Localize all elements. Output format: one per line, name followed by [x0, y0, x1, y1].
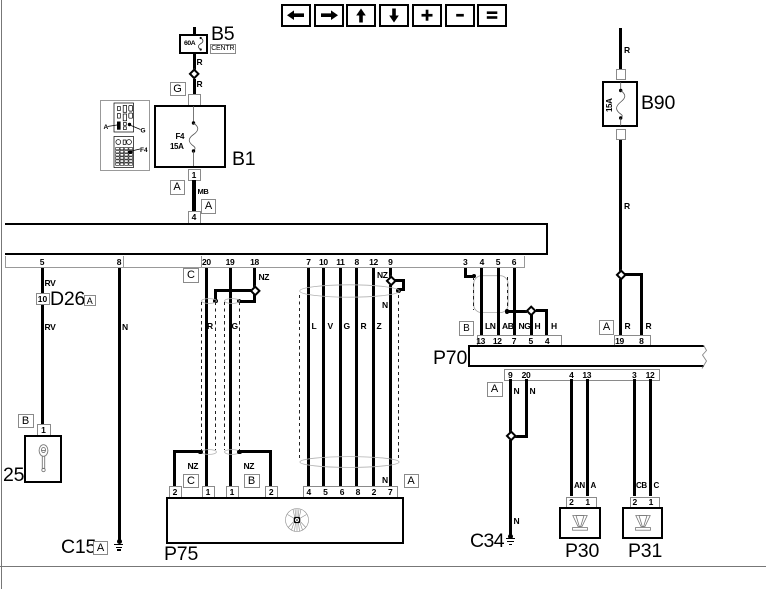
wire R (pin20 to P75 pin1)	[205, 268, 208, 487]
wire N from P70 pin 20	[525, 379, 528, 438]
connector B box of 25	[18, 414, 34, 428]
big shield oval (top)	[299, 284, 400, 298]
shield collar of wire 20 (top)	[201, 298, 217, 304]
shield dashed lines wire 19	[224, 302, 225, 450]
wire H to P70 pin 4	[536, 309, 547, 312]
connector diamond N join	[505, 430, 517, 442]
device 25 (key switch)	[24, 435, 62, 483]
P70 bottom pin strip	[504, 369, 661, 381]
B90 upper connector box	[616, 69, 627, 80]
ground C34	[508, 534, 513, 539]
P75 pin 5	[319, 488, 331, 497]
wire MB from B1 to bus	[192, 180, 196, 225]
label CENTR box	[210, 44, 236, 55]
wire RV from bus pin 5	[41, 268, 44, 425]
connector B box (P75)	[244, 474, 260, 489]
svg-text:F4: F4	[140, 147, 148, 154]
toolbar button right-arrow	[314, 4, 344, 27]
bus pin 20	[200, 258, 212, 267]
P75 pin 6	[336, 488, 348, 497]
P75 pin 1 box (B)	[226, 486, 239, 498]
device P31 (tweeter)	[622, 507, 664, 539]
wire NZ from pin18	[253, 268, 256, 287]
shield collar of wire 19 (bottom)	[224, 449, 240, 455]
big shield oval (bottom)	[299, 456, 400, 468]
wire NG (bus6 to P70 7)	[513, 268, 516, 336]
junction dot on big shield	[396, 288, 401, 293]
wire from NZ diamond to shield of wire 19	[253, 294, 256, 303]
junction dot on shield 20	[213, 299, 218, 304]
bus pin 5b	[492, 258, 504, 267]
bus pin 7	[303, 258, 315, 267]
label 25	[3, 466, 24, 486]
wire N to ground C34	[509, 440, 512, 536]
big shield dashed sides	[299, 295, 300, 460]
fuse B5	[179, 34, 208, 54]
wire A (P70 13 to P30 1)	[586, 379, 589, 497]
toolbar button left-arrow	[281, 4, 311, 27]
label C34	[470, 532, 504, 552]
connector diamond below B5	[188, 68, 200, 80]
label P30	[565, 542, 599, 562]
toolbar button down-arrow	[379, 4, 409, 27]
P75 pin 2	[368, 488, 380, 497]
bus pin 3	[459, 258, 471, 267]
bus pin 8	[113, 258, 125, 267]
wire CB (P70 3 to P31 2)	[633, 379, 636, 497]
P31 pin strip (2 1)	[630, 497, 661, 509]
shield dashed lines wire 20	[201, 302, 202, 450]
B90 15A label (rotated)	[606, 96, 614, 112]
wire shield to H diamond	[507, 310, 527, 313]
P75 pin 1 box (C)	[202, 486, 215, 498]
page left border line	[1, 0, 2, 589]
connector diamond NZ (shield junction)	[249, 285, 261, 297]
svg-text:A: A	[103, 124, 108, 131]
wire R below B90	[619, 140, 622, 272]
connector A box (P70 bottom)	[487, 382, 503, 397]
label B5	[211, 25, 234, 45]
wire R into B90	[619, 28, 622, 69]
wire N (pin9) below diamond	[389, 285, 392, 487]
bus pin 6	[508, 258, 520, 267]
connector diamond H	[525, 305, 537, 317]
fusebox B1	[154, 105, 226, 169]
pin 1 of 25	[37, 424, 51, 437]
connector diamond (R split)	[615, 269, 627, 281]
wire V (pin10)	[322, 268, 325, 487]
wire R to P70 pin 19	[619, 279, 622, 336]
toolbar button equals	[477, 4, 507, 27]
device P70 bus bar	[468, 345, 704, 367]
P70 pin strip left (13 12 7 5 4)	[477, 335, 562, 347]
drain from diamond to big shield	[394, 279, 404, 282]
B90 lower connector box	[616, 129, 627, 140]
bus pin 9	[384, 258, 396, 267]
wire R below B5	[193, 54, 196, 70]
wire N from bus pin 8	[118, 268, 121, 540]
label D26	[50, 290, 85, 310]
label B1	[232, 150, 255, 170]
toolbar button plus	[412, 4, 442, 27]
connector D26 pin 10 box	[36, 293, 50, 305]
P30 pin strip (2 1)	[566, 497, 597, 509]
wire C (P70 12 to P31 1)	[649, 379, 652, 497]
P75 siren symbol	[285, 508, 309, 532]
junction dot shield bottom right	[505, 309, 510, 314]
wire L (pin7)	[307, 268, 310, 487]
connector A box of D26	[84, 295, 96, 307]
wire RV lower	[45, 323, 56, 332]
NZ drain wire right to P75 pin 2	[237, 450, 242, 455]
P75 pin 8	[352, 488, 364, 497]
P75 pin strip (A)	[303, 486, 398, 498]
connector diamond NZ (pin9)	[385, 276, 397, 288]
wire LN (bus4 to P70 13)	[480, 268, 483, 336]
ground C15	[117, 539, 122, 544]
N join bend into diamond	[513, 435, 528, 438]
wire R above B1	[193, 79, 196, 95]
P75 pin 7	[384, 488, 396, 497]
main bus bar (top)	[5, 223, 548, 255]
connector C box (P75)	[183, 474, 199, 489]
pin 1 of B1	[188, 169, 201, 181]
label P31	[628, 542, 662, 562]
NZ drain wire left to P75 pin 2	[198, 450, 203, 455]
toolbar button minus	[445, 4, 475, 27]
P70 torn right edge	[699, 345, 709, 369]
connector A box (P75)	[404, 474, 419, 489]
bus pin 4	[476, 258, 488, 267]
wire N from P70 pin 9	[509, 379, 512, 433]
bus pin strip	[5, 256, 525, 269]
junction dot on shield 19	[237, 299, 242, 304]
shield collar of wire 20 (bottom)	[201, 449, 217, 455]
label P70	[433, 349, 467, 369]
connector C box (top)	[183, 268, 199, 283]
bus pin 5	[36, 258, 48, 267]
wire R branch to P70 pin 8	[625, 273, 642, 276]
P70 pin strip right (19 8)	[614, 335, 651, 347]
label B90	[641, 94, 675, 114]
shield stadium around wires 4,5	[473, 275, 509, 314]
P75 pin 2 box (B)	[265, 486, 278, 498]
pin box above B1	[188, 94, 201, 106]
legend box for B1 fuse location	[100, 100, 150, 171]
pin 4 into bus	[188, 211, 201, 224]
toolbar button up-arrow	[346, 4, 376, 27]
fuse F4 15A inside B1	[188, 106, 202, 166]
wire Z (pin12)	[372, 268, 375, 487]
wire G (pin11)	[339, 268, 342, 487]
wire into fuse B5	[193, 27, 196, 35]
fuse B90	[602, 81, 638, 128]
connector A box (P70 right)	[599, 320, 614, 335]
wire AN (P70 4 to P30 2)	[570, 379, 573, 497]
bus pin 10	[317, 258, 329, 267]
node G box	[170, 82, 186, 96]
connector A box of C15	[93, 541, 108, 555]
svg-text:G: G	[140, 128, 145, 135]
label C15	[61, 538, 96, 558]
connector B box (P70 left)	[459, 321, 474, 336]
wire from bus pin 3 to shield	[464, 268, 467, 278]
wire AB (bus5 to P70 12)	[497, 268, 500, 336]
wire H to P70 pin 5	[530, 315, 533, 336]
bus pin 11	[334, 258, 346, 267]
connector A box right	[201, 199, 216, 214]
wire N label near P75	[382, 476, 388, 485]
bus pin 8b	[351, 258, 363, 267]
bus pin 19	[224, 258, 236, 267]
shield collar of wire 19 (top)	[224, 298, 240, 304]
wire from NZ diamond to shield of wire 20	[214, 289, 251, 292]
bus pin 12	[368, 258, 380, 267]
wire R (pin8)	[355, 268, 358, 487]
device P30 (tweeter)	[559, 507, 601, 539]
P75 pin 2 box (C)	[169, 486, 182, 498]
wire NZ (pin9) upper	[389, 268, 392, 278]
P75 pin 4	[303, 488, 315, 497]
label P75	[164, 545, 198, 565]
connector A box left	[170, 180, 185, 195]
device P75 (radio unit)	[166, 497, 404, 544]
wire G (pin19 to P75 pin1)	[229, 268, 232, 487]
bus pin 18	[249, 258, 261, 267]
junction dot on shield (top left)	[472, 274, 477, 279]
page bottom border line	[0, 566, 766, 567]
